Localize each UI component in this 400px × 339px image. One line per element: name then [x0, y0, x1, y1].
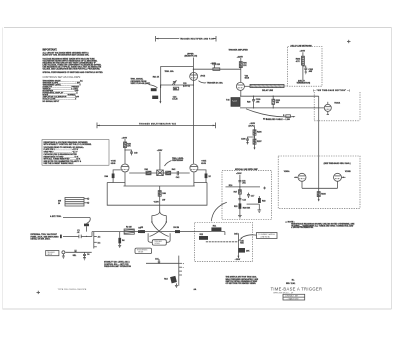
capacitor C6 with ground	[83, 252, 89, 259]
svg-text:R29: R29	[247, 101, 250, 103]
svg-text:LEVEL: LEVEL	[155, 243, 160, 245]
svg-text:R17: R17	[234, 191, 237, 193]
note triangle marker	[285, 220, 355, 229]
svg-text:27K: 27K	[243, 65, 247, 67]
wire filter horizontal with plus terminal	[226, 186, 267, 189]
svg-text:−: −	[183, 267, 185, 269]
capacitor C5	[73, 250, 78, 257]
svg-text:R193: R193	[321, 194, 326, 196]
annotation trigger signal leader	[199, 81, 224, 85]
svg-text:+100V: +100V	[211, 63, 217, 65]
svg-text:TERMINATION): TERMINATION)	[297, 82, 311, 85]
svg-text:+: +	[183, 263, 185, 265]
svg-text:R41: R41	[145, 168, 148, 171]
dashed box time-base generator tubes	[278, 156, 360, 208]
resistor R237	[253, 139, 262, 144]
svg-text:T 44: T 44	[226, 99, 230, 102]
svg-text:DELAY LINE: DELAY LINE	[262, 89, 274, 92]
svg-text:C236: C236	[241, 138, 246, 140]
power +225V plate supply	[237, 56, 244, 58]
note bottom middle	[226, 276, 259, 286]
svg-text:+225V: +225V	[237, 56, 244, 58]
svg-text:D45: D45	[234, 232, 237, 235]
svg-text:T- pad: T- pad	[232, 100, 237, 102]
wire plate row y=69.2	[193, 68, 240, 70]
resistor R11 on mode line	[211, 225, 221, 231]
wire coupling row between tubes	[129, 172, 190, 174]
svg-text:R4: R4	[122, 239, 125, 242]
svg-text:± 20% APPROXIMATION.: ± 20% APPROXIMATION.	[291, 226, 314, 229]
svg-text:1K: 1K	[208, 176, 211, 178]
svg-text:R25: R25	[217, 64, 220, 66]
wire R1 to input line	[86, 226, 88, 231]
power +100V screen feed	[211, 63, 217, 68]
wire input ground row	[65, 251, 91, 253]
svg-text:6DJ8: 6DJ8	[111, 163, 116, 165]
capacitor C13 filter	[238, 199, 245, 202]
resistor R47	[239, 248, 251, 253]
svg-text:R9 2M: R9 2M	[173, 227, 179, 229]
power -150V multivib	[153, 199, 165, 203]
svg-text:△ MARCH 1959: △ MARCH 1959	[287, 298, 299, 301]
capacitor C14	[155, 258, 160, 263]
svg-text:INPUT: INPUT	[47, 254, 52, 256]
connector at cable end	[286, 115, 291, 118]
title revision box	[283, 294, 305, 300]
capacitor C236 bypass with ground	[241, 136, 255, 144]
capacitor C290 termination	[247, 96, 260, 108]
callout box TO SWEEP GATING	[257, 233, 278, 239]
svg-text:C17: C17	[251, 195, 254, 197]
resistor R3	[138, 228, 144, 233]
note block IMPORTANT (upper left)	[43, 49, 104, 103]
resistor R193 cathode	[317, 188, 326, 201]
svg-text:6DJ8: 6DJ8	[245, 78, 250, 80]
power +100V (dcpl)	[249, 123, 256, 127]
wire V26 plate to delay line	[245, 85, 251, 87]
resistor R9	[173, 227, 180, 233]
resistor R48	[205, 174, 212, 179]
svg-text:4.7K: 4.7K	[296, 60, 301, 63]
svg-text:DETAIL ON SW. DIAG.: DETAIL ON SW. DIAG.	[31, 238, 51, 241]
svg-text:47K: 47K	[127, 145, 131, 148]
terminal input left	[60, 235, 62, 239]
svg-text:C13: C13	[242, 199, 245, 201]
tube V193A input cf	[324, 101, 340, 114]
resistor R1	[84, 224, 89, 227]
resistor R26 plate load	[239, 62, 247, 68]
svg-text:CONTROLS SET AS FOLLOWS:: CONTROLS SET AS FOLLOWS:	[43, 75, 82, 79]
svg-text:SHIELDED CABLE — L290: SHIELDED CABLE — L290	[266, 118, 290, 121]
svg-text:C42: C42	[176, 176, 179, 179]
resistor R18 filter	[258, 196, 266, 213]
page right edge	[391, 28, 393, 310]
label box TRIGGERING LEVEL	[152, 240, 166, 245]
wire mode lower branch	[146, 263, 179, 264]
svg-text:.005: .005	[308, 71, 312, 73]
switch wafer AC-DC	[94, 232, 101, 249]
resistor R44	[105, 174, 115, 179]
value box SEL C24	[172, 87, 179, 100]
svg-text:+225V: +225V	[157, 150, 163, 152]
svg-text:4.5-25: 4.5-25	[172, 97, 177, 100]
dashed box SW TIME-BASE SECTION	[313, 89, 360, 121]
svg-text:AA: AA	[194, 288, 197, 291]
tube V193A sweep gate	[284, 170, 306, 181]
wire multivib inner cathode rail	[124, 172, 195, 186]
svg-text:R13: R13	[234, 206, 237, 208]
wire +225V to V26	[240, 58, 242, 82]
svg-text:MODE: MODE	[138, 252, 144, 254]
svg-text:V193A: V193A	[334, 101, 340, 104]
wire main vertical from upper beam plug through V24 down to V45B	[192, 58, 194, 164]
resistor R236	[253, 130, 262, 135]
svg-text:FREE-RUN LIMIT OPERATION: FREE-RUN LIMIT OPERATION	[104, 265, 131, 268]
registration mark bottom left	[37, 291, 41, 294]
svg-text:2W: 2W	[162, 199, 165, 201]
wire input corner	[161, 67, 194, 89]
wire pot feed split	[152, 205, 166, 222]
svg-text:R16: R16	[229, 185, 232, 187]
resistor R17	[234, 190, 242, 194]
wire trigger level main through pot	[145, 231, 195, 233]
resistor R46 to -150V	[158, 186, 166, 205]
svg-text:OF SECTION FOR WAFER VIEWS.: OF SECTION FOR WAFER VIEWS.	[226, 282, 257, 285]
ground filter main	[238, 215, 242, 218]
cable curve to sweep chassis	[246, 109, 296, 121]
svg-text:AC: AC	[98, 236, 101, 239]
resistor R2 1M on line	[124, 227, 134, 235]
resistor R21 (divider)	[151, 88, 157, 91]
delay line coil	[250, 84, 284, 91]
svg-text:R19 56K: R19 56K	[243, 207, 251, 209]
tube V45B multivibrator	[190, 159, 206, 172]
wire filter vertical main	[239, 175, 241, 216]
svg-text:DC: DC	[98, 242, 101, 244]
wire V45A plate feed	[124, 139, 126, 164]
page bottom edge	[3, 308, 392, 310]
svg-text:(SEE TIME-BASE GEN. DIAG.): (SEE TIME-BASE GEN. DIAG.)	[324, 162, 351, 165]
wire multivib outer feedback rail	[107, 183, 207, 206]
svg-text:R42: R42	[172, 168, 175, 171]
resistor R14	[164, 276, 177, 284]
svg-text:C6: C6	[87, 254, 89, 256]
svg-text:M+: M+	[292, 280, 296, 282]
leader curve from annotation to divider	[149, 85, 158, 89]
svg-text:C40: C40	[134, 152, 137, 155]
cable arc to mode switch	[211, 202, 227, 221]
annotation EXTERNAL TRIGGER INPUT	[31, 233, 60, 240]
svg-text:R236: R236	[257, 132, 262, 134]
resistor R233 termination	[272, 96, 280, 108]
node A EXT TRIG	[50, 215, 90, 218]
resistor R22 (divider)	[152, 96, 158, 99]
annotation TRIG SIGNAL FROM VERT PLUG-IN	[131, 78, 151, 85]
svg-text:TRIGGER AMPLIFIER: TRIGGER AMPLIFIER	[229, 48, 249, 51]
svg-text:R14: R14	[164, 278, 168, 281]
svg-text:R5: R5	[141, 227, 143, 229]
junction dots termination rows	[253, 96, 274, 109]
dashed link delay line to network	[284, 85, 288, 87]
switch wafer SW14 slope	[179, 256, 185, 286]
capacitor C40 coupling	[124, 149, 137, 155]
registration mark top right	[347, 40, 351, 43]
svg-text:+100V: +100V	[236, 173, 242, 175]
wire grid row y=85	[161, 84, 194, 86]
svg-text:TRIGGER DC SIG.: TRIGGER DC SIG.	[207, 83, 224, 85]
svg-text:−150V: −150V	[153, 202, 159, 204]
box TRIGGER INPUT note	[46, 251, 59, 256]
wire to sweep callout	[243, 235, 257, 237]
tube V24 6AU6 pickoff	[190, 72, 206, 80]
svg-text:20: 20	[58, 203, 60, 205]
svg-text:555 / 21A1: 555 / 21A1	[286, 282, 295, 285]
svg-text:CENTERING: CENTERING	[172, 160, 184, 162]
svg-text:−150V: −150V	[235, 259, 241, 261]
svg-text:R44: R44	[105, 175, 109, 178]
svg-text:R2 1M: R2 1M	[126, 227, 132, 229]
svg-text:186: 186	[276, 102, 279, 104]
resistor R12	[199, 234, 208, 240]
svg-text:(VIA SW A): (VIA SW A)	[261, 236, 270, 239]
svg-text:6DJ8: 6DJ8	[201, 163, 206, 165]
attenuator T-pad box	[226, 98, 240, 107]
wire divider vertical with arrow	[159, 85, 161, 104]
svg-text:R45: R45	[240, 242, 243, 245]
resistor R4 to ground	[118, 232, 125, 248]
label delay termination	[297, 79, 311, 84]
svg-text:.005: .005	[256, 101, 260, 103]
resistor R292	[296, 56, 305, 65]
svg-text:|— “SW TIME-BASE SECTION” —|: |— “SW TIME-BASE SECTION” —|	[313, 89, 350, 92]
wire delay termination vertical	[302, 52, 304, 80]
resistor R42	[166, 168, 176, 175]
tube V26 6DJ8 amplifier	[236, 75, 249, 90]
tube V45A multivibrator	[111, 159, 129, 172]
svg-text:R12: R12	[200, 234, 203, 236]
inductor L25 peaking	[213, 64, 220, 70]
svg-text:DELAY LINE NETWORK: DELAY LINE NETWORK	[291, 45, 313, 48]
wire bias feed up from coupling row	[159, 152, 161, 170]
svg-text:A EXT. TRIG.: A EXT. TRIG.	[50, 215, 62, 218]
value label C23 lug	[183, 83, 190, 87]
node label UPPER BEAM PLUG	[185, 53, 198, 57]
svg-text:(LUG 2): (LUG 2)	[183, 85, 190, 87]
power -150V mode	[235, 256, 241, 261]
switch SW20 trigger source ladder	[58, 198, 84, 207]
capacitor C16	[229, 180, 246, 187]
svg-text:R237: R237	[257, 141, 262, 143]
svg-text:93 Ω: 93 Ω	[263, 118, 268, 121]
wire V45B cathode loop	[194, 170, 206, 183]
svg-text:TRIGGER MULTIVIBRATOR V45: TRIGGER MULTIVIBRATOR V45	[139, 122, 176, 125]
resistor R40	[124, 142, 132, 148]
page left edge	[2, 28, 4, 310]
resistor R13 filter	[234, 203, 241, 208]
annotation STABILITY	[104, 261, 131, 268]
capacitor C42	[176, 171, 179, 179]
wire trigger input main	[63, 232, 140, 237]
ground below R14	[175, 283, 178, 287]
svg-text:R46: R46	[162, 192, 165, 195]
wire delay output row B to V193A grid	[240, 107, 324, 109]
svg-text:R21 1K: R21 1K	[153, 77, 160, 79]
svg-text:VERT. PLUG-IN (AMP): VERT. PLUG-IN (AMP)	[131, 82, 151, 85]
note box: resistance and voltage readings (mid left)	[42, 140, 109, 166]
svg-text:R11: R11	[213, 225, 216, 227]
svg-text:SEL: SEL	[73, 255, 78, 257]
svg-text:R18: R18	[262, 200, 265, 202]
capacitor C24 variable	[172, 80, 176, 85]
svg-text:TRIG. SIG.: TRIG. SIG.	[165, 71, 175, 73]
capacitor C3 with ground	[62, 251, 65, 258]
dashed box triggering mode switch	[195, 223, 253, 262]
wire delay output row A	[240, 95, 319, 97]
wire gate cathode rail	[302, 181, 338, 188]
wire +100V dcpl vertical	[254, 127, 256, 148]
svg-text:V193A: V193A	[284, 170, 290, 173]
svg-text:CONTRACT JRH: CONTRACT JRH	[285, 295, 299, 298]
svg-text:SPECIAL PERFORMANCE OF SWITCHE: SPECIAL PERFORMANCE OF SWITCHES AND CONT…	[43, 71, 104, 74]
capacitor C1 series	[77, 230, 81, 238]
resistor R5	[140, 227, 145, 233]
label box TRIGGERING MODE	[135, 248, 152, 254]
switch output contacts	[84, 198, 89, 204]
svg-text:SPECIAL USE WITH SWP: SPECIAL USE WITH SWP	[235, 168, 258, 171]
control TRIGGERING LEVEL crossed linkage	[148, 221, 170, 242]
dashed box coupling filter	[222, 171, 272, 220]
svg-text:.001: .001	[242, 183, 246, 185]
svg-text:10K: 10K	[246, 250, 250, 252]
dimension bracket TRIGGER PICKOFF	[156, 36, 216, 42]
svg-text:IMPORTANT:: IMPORTANT:	[43, 49, 58, 52]
wire long vertical to sweep tubes	[318, 96, 320, 188]
annotation TRIG LEVEL CENTERING	[165, 158, 185, 166]
page top edge	[4, 27, 392, 29]
wire filter lower branch	[247, 203, 260, 205]
wire ext trig drop curve	[87, 218, 91, 224]
wire V45A cathode loop	[113, 170, 125, 183]
tube V193B sweep gate	[334, 171, 352, 181]
svg-text:.01: .01	[77, 232, 80, 234]
transistor Q45 sweep trigger	[234, 232, 242, 258]
wire mode line to emitter	[195, 232, 225, 235]
capacitor C292	[302, 65, 313, 74]
label C45 R45	[240, 239, 243, 244]
svg-text:TYPE 555 OSCILLOSCOPE: TYPE 555 OSCILLOSCOPE	[58, 289, 87, 291]
svg-text:NO SIGNAL INPUT: NO SIGNAL INPUT	[43, 100, 61, 103]
tunnel diode box D45	[157, 170, 164, 176]
resistor R41	[145, 168, 152, 175]
svg-text:WITH STABILITY CONTROL SET FUL: WITH STABILITY CONTROL SET FULLY CLOCKWI…	[44, 143, 92, 146]
svg-text:V193B: V193B	[345, 171, 351, 173]
svg-text:20,000 O/V VOM. NO DEVIATION: 20,000 O/V VOM. NO DEVIATION MAY EXCEED …	[43, 54, 90, 57]
wire base row	[206, 241, 239, 243]
svg-text:(BEAM PLUG): (BEAM PLUG)	[185, 55, 198, 58]
svg-text:USE THE LOWEST RANGE ONLY.: USE THE LOWEST RANGE ONLY.	[44, 162, 75, 165]
dimension bracket TRIGGER MULTIVIBRATOR	[97, 122, 216, 128]
svg-text:VALUES. SEE CALIBRATION SECTI: VALUES. SEE CALIBRATION SECTION FOR FULL…	[43, 67, 101, 70]
svg-text:(P47): (P47)	[201, 75, 206, 78]
wire V26 cathode down to T-pad	[240, 91, 242, 97]
svg-text:TIME-BASE A TRIGGER: TIME-BASE A TRIGGER	[271, 287, 323, 292]
dashed box DELAY LINE NETWORK	[288, 47, 322, 87]
svg-text:TRIGGER RECTIFIER AND P.O.: TRIGGER RECTIFIER AND P.O.	[180, 38, 214, 41]
capacitor C17 branch	[247, 193, 254, 198]
